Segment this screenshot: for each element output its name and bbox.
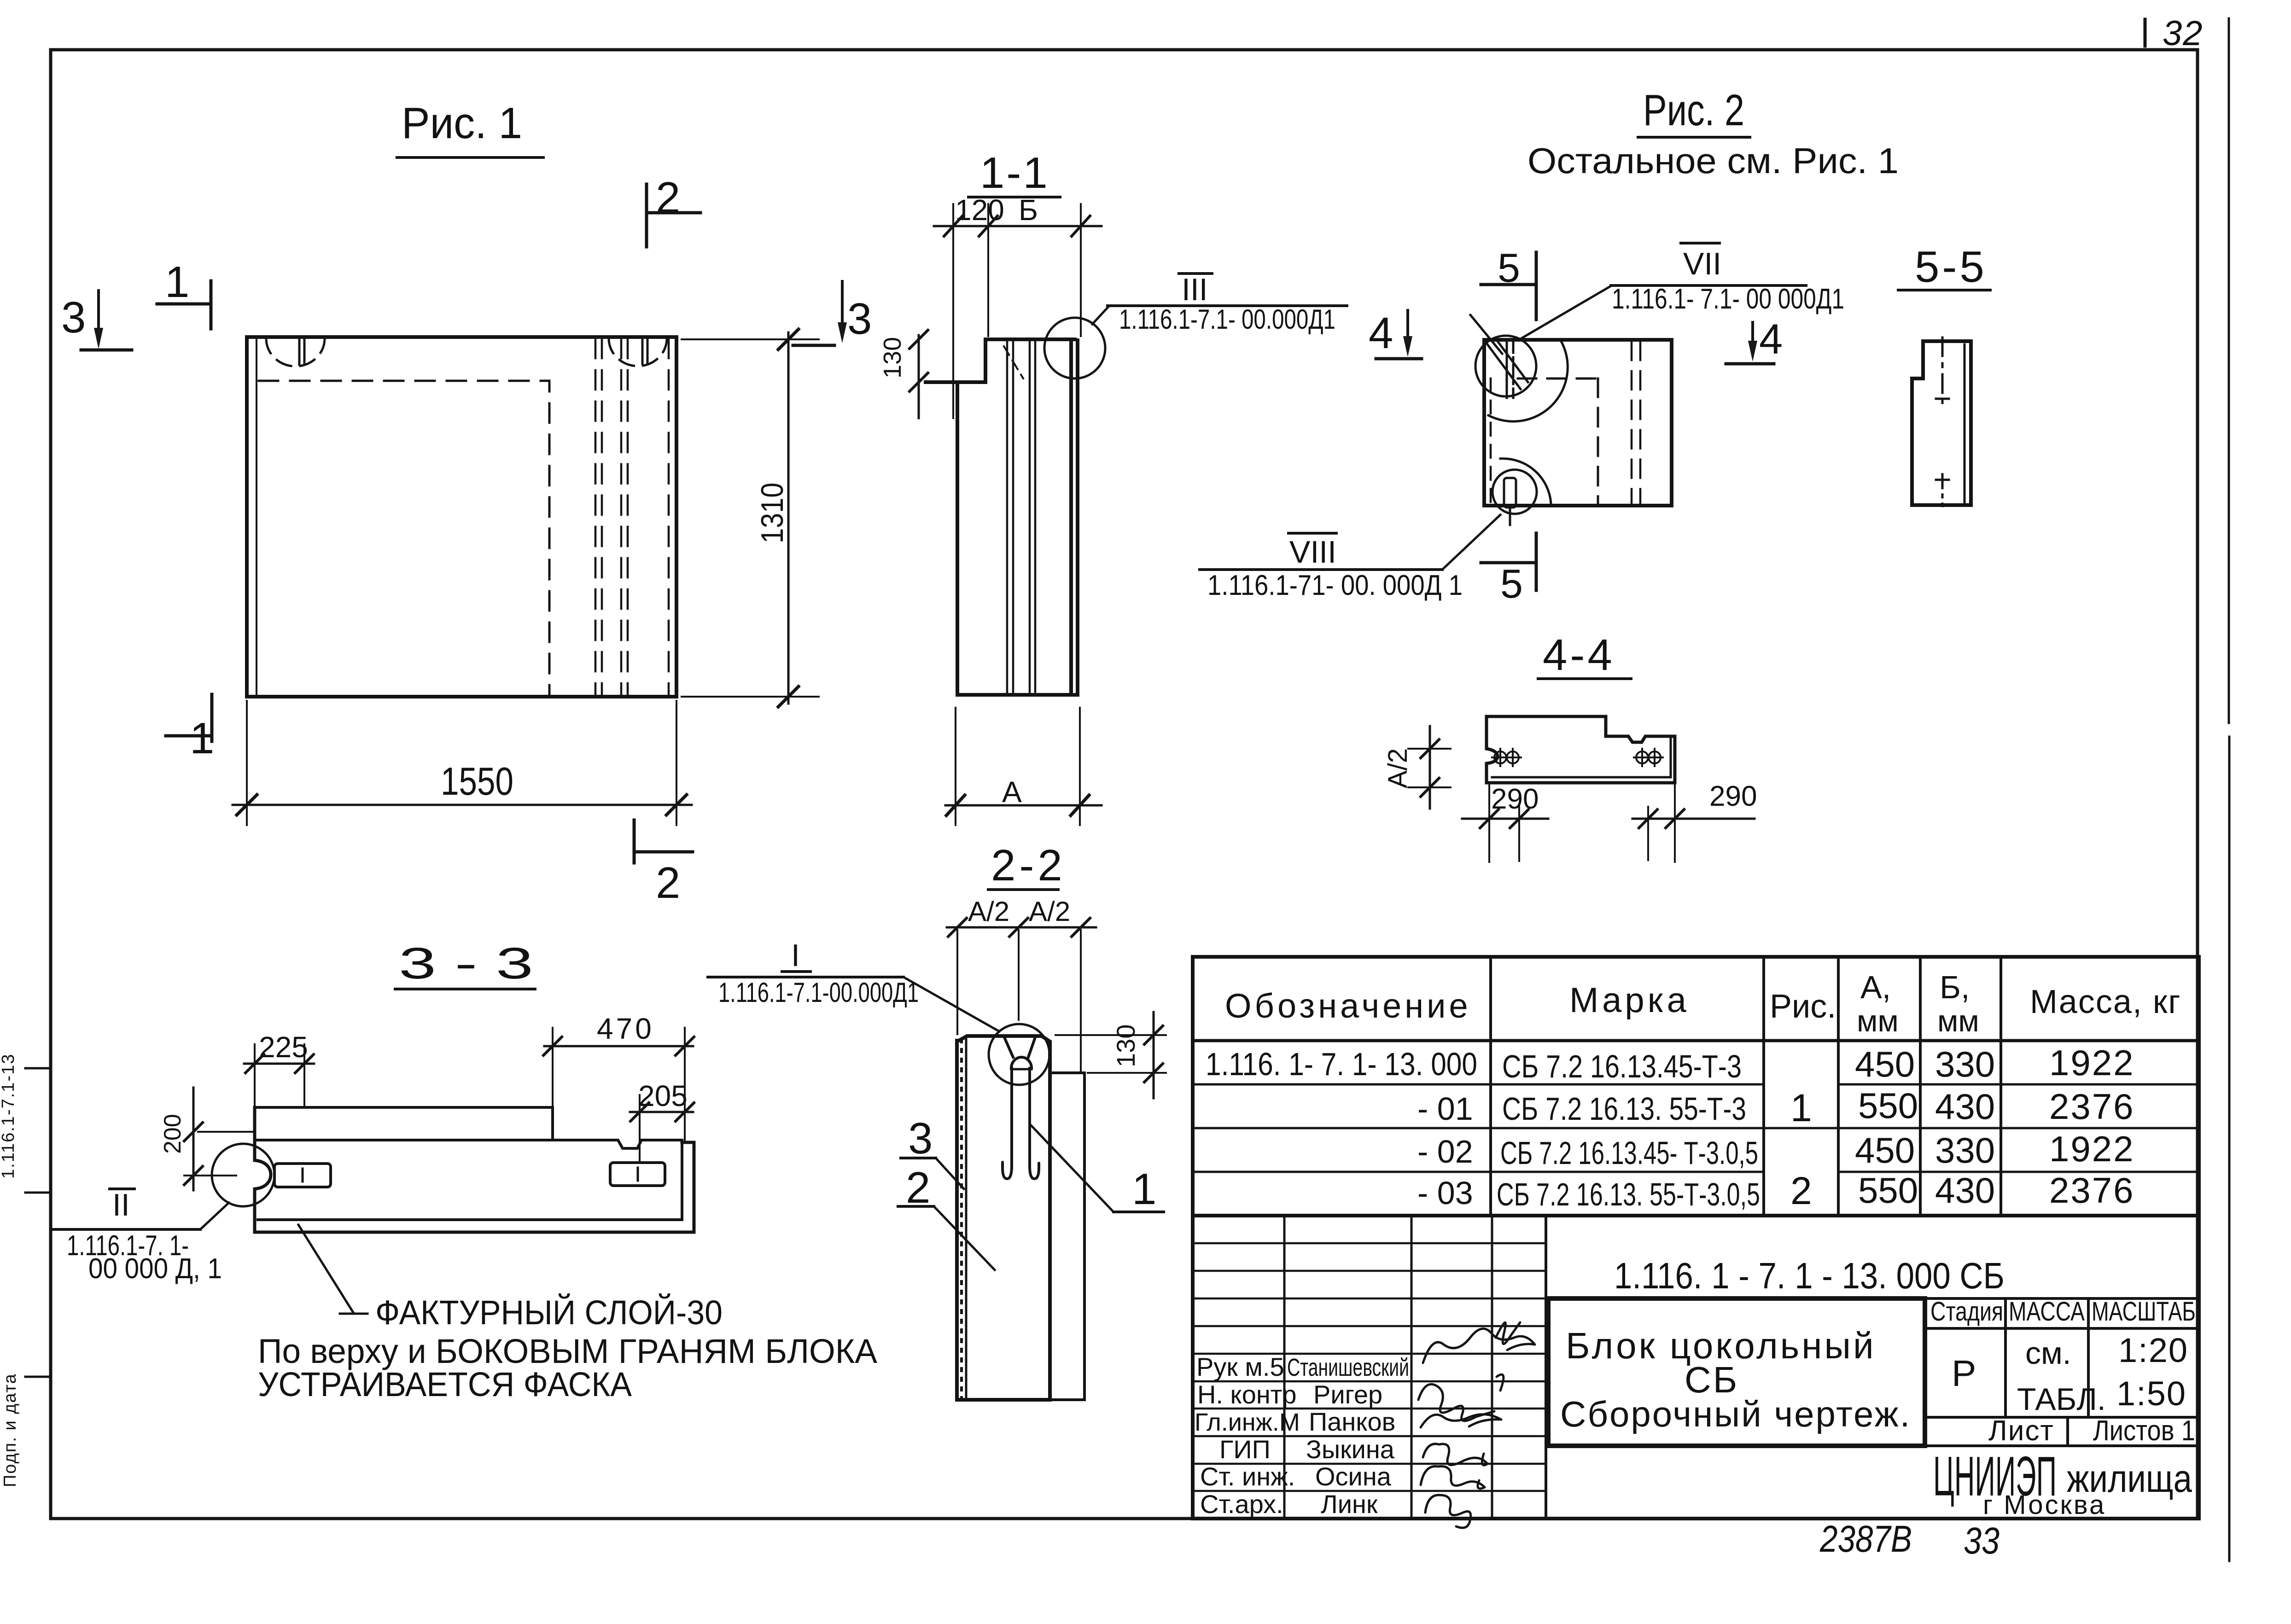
svg-text:4: 4 bbox=[1759, 316, 1783, 363]
svg-text:- 02: - 02 bbox=[1417, 1134, 1473, 1170]
svg-text:1:50: 1:50 bbox=[2116, 1374, 2186, 1413]
svg-text:Станишевский: Станишевский bbox=[1287, 1354, 1409, 1381]
svg-text:2387В: 2387В bbox=[1819, 1518, 1912, 1560]
svg-text:290: 290 bbox=[1709, 780, 1757, 812]
svg-text:УСТРАИВАЕТСЯ ФАСКА: УСТРАИВАЕТСЯ ФАСКА bbox=[258, 1365, 632, 1403]
svg-text:3: 3 bbox=[847, 294, 872, 343]
svg-text:1922: 1922 bbox=[2049, 1042, 2135, 1083]
svg-text:Листов 1: Листов 1 bbox=[2093, 1415, 2195, 1447]
svg-text:33: 33 bbox=[1964, 1520, 2000, 1562]
svg-text:130: 130 bbox=[879, 337, 906, 378]
svg-text:00 000 Д, 1: 00 000 Д, 1 bbox=[88, 1253, 222, 1285]
svg-text:г Москва: г Москва bbox=[1983, 1490, 2106, 1520]
svg-text:1.116.1- 7.1- 00 000Д1: 1.116.1- 7.1- 00 000Д1 bbox=[1612, 283, 1844, 315]
svg-text:Рис.: Рис. bbox=[1770, 988, 1836, 1025]
svg-text:Обозначение: Обозначение bbox=[1225, 987, 1471, 1025]
svg-text:Ст.арх.: Ст.арх. bbox=[1200, 1490, 1283, 1519]
svg-text:Зыкина: Зыкина bbox=[1306, 1435, 1395, 1464]
svg-text:2: 2 bbox=[656, 858, 680, 908]
svg-text:А,: А, bbox=[1860, 969, 1891, 1005]
svg-text:1.116.1-7.1-00.000Д1: 1.116.1-7.1-00.000Д1 bbox=[718, 977, 919, 1008]
svg-text:СБ 7.2 16.13. 55-Т-3: СБ 7.2 16.13. 55-Т-3 bbox=[1502, 1091, 1746, 1127]
svg-text:450: 450 bbox=[1855, 1130, 1915, 1170]
svg-text:32: 32 bbox=[2163, 14, 2204, 53]
svg-text:Ст. инж.: Ст. инж. bbox=[1200, 1462, 1295, 1491]
svg-text:120: 120 bbox=[955, 193, 1004, 227]
svg-text:1.116. 1- 7. 1- 13. 000: 1.116. 1- 7. 1- 13. 000 bbox=[1206, 1046, 1477, 1082]
svg-text:Масса, кг: Масса, кг bbox=[2030, 984, 2181, 1020]
svg-text:III: III bbox=[1182, 272, 1208, 307]
svg-text:130: 130 bbox=[1111, 1024, 1140, 1067]
svg-text:ФАКТУРНЫЙ СЛОЙ-30: ФАКТУРНЫЙ СЛОЙ-30 bbox=[375, 1293, 723, 1332]
svg-text:- 03: - 03 bbox=[1417, 1175, 1473, 1211]
svg-text:- 01: - 01 bbox=[1417, 1091, 1473, 1127]
svg-text:1550: 1550 bbox=[441, 760, 513, 803]
svg-text:2: 2 bbox=[906, 1163, 930, 1212]
svg-text:СБ 7.2 16.13. 55-Т-3.0,5: СБ 7.2 16.13. 55-Т-3.0,5 bbox=[1497, 1176, 1760, 1212]
svg-text:330: 330 bbox=[1935, 1044, 1995, 1084]
svg-text:1922: 1922 bbox=[2049, 1129, 2135, 1169]
svg-text:5-5: 5-5 bbox=[1915, 242, 1987, 291]
svg-text:2: 2 bbox=[656, 173, 680, 222]
svg-text:1: 1 bbox=[165, 257, 189, 307]
svg-text:4: 4 bbox=[1369, 309, 1393, 358]
svg-text:1:20: 1:20 bbox=[2118, 1331, 2188, 1369]
svg-text:Панков: Панков bbox=[1309, 1407, 1395, 1436]
svg-text:мм: мм bbox=[1937, 1004, 1979, 1038]
svg-text:1: 1 bbox=[1132, 1164, 1156, 1214]
svg-text:430: 430 bbox=[1935, 1086, 1995, 1127]
svg-text:Осина: Осина bbox=[1315, 1462, 1392, 1491]
svg-text:200: 200 bbox=[159, 1114, 186, 1154]
svg-text:Сборочный чертеж.: Сборочный чертеж. bbox=[1560, 1394, 1911, 1434]
svg-text:Р: Р bbox=[1952, 1353, 1976, 1394]
svg-text:225: 225 bbox=[259, 1030, 308, 1064]
svg-text:2-2: 2-2 bbox=[991, 841, 1066, 890]
svg-text:Ригер: Ригер bbox=[1313, 1380, 1382, 1409]
svg-text:I: I bbox=[791, 938, 800, 973]
svg-text:Б: Б bbox=[1019, 193, 1038, 227]
svg-text:ТАБЛ.: ТАБЛ. bbox=[2017, 1382, 2106, 1417]
svg-text:А: А bbox=[1002, 775, 1022, 809]
svg-text:Подп. и дата: Подп. и дата bbox=[0, 1373, 20, 1487]
svg-text:А/2: А/2 bbox=[1029, 896, 1070, 927]
svg-text:5: 5 bbox=[1500, 561, 1523, 606]
svg-text:1.116.1-7.1- 00.000Д1: 1.116.1-7.1- 00.000Д1 bbox=[1119, 304, 1335, 335]
svg-text:Гл.инж.М: Гл.инж.М bbox=[1195, 1409, 1300, 1436]
svg-text:Остальное см. Рис. 1: Остальное см. Рис. 1 bbox=[1527, 140, 1899, 181]
svg-text:мм: мм bbox=[1857, 1004, 1899, 1038]
svg-text:2376: 2376 bbox=[2049, 1170, 2135, 1211]
svg-text:1-1: 1-1 bbox=[980, 148, 1049, 198]
svg-text:ГИП: ГИП bbox=[1219, 1435, 1271, 1464]
svg-text:1.116. 1 - 7. 1 - 13. 000 СБ: 1.116. 1 - 7. 1 - 13. 000 СБ bbox=[1614, 1255, 2005, 1296]
svg-text:3 - 3: 3 - 3 bbox=[399, 939, 533, 988]
svg-text:Рис. 1: Рис. 1 bbox=[402, 99, 522, 148]
svg-text:Рис. 2: Рис. 2 bbox=[1643, 86, 1744, 135]
svg-text:550: 550 bbox=[1858, 1170, 1918, 1211]
svg-text:3: 3 bbox=[61, 293, 86, 342]
svg-text:430: 430 bbox=[1935, 1170, 1995, 1211]
svg-text:470: 470 bbox=[597, 1012, 654, 1045]
svg-text:Н. контр: Н. контр bbox=[1197, 1380, 1297, 1409]
svg-text:4-4: 4-4 bbox=[1543, 630, 1615, 680]
svg-text:СБ 7.2 16.13.45-Т-3: СБ 7.2 16.13.45-Т-3 bbox=[1502, 1048, 1742, 1084]
svg-text:Стадия: Стадия bbox=[1930, 1297, 2003, 1327]
svg-text:II: II bbox=[112, 1187, 130, 1222]
svg-text:А/2: А/2 bbox=[1383, 748, 1413, 788]
svg-text:550: 550 bbox=[1858, 1085, 1918, 1126]
svg-text:450: 450 bbox=[1855, 1044, 1915, 1084]
svg-text:1.116.1-71- 00. 000Д 1: 1.116.1-71- 00. 000Д 1 bbox=[1207, 570, 1463, 601]
svg-text:330: 330 bbox=[1935, 1130, 1995, 1170]
svg-text:МАССА: МАССА bbox=[2009, 1297, 2085, 1327]
svg-text:VII: VII bbox=[1683, 246, 1721, 281]
svg-text:Линк: Линк bbox=[1321, 1490, 1378, 1519]
svg-text:1310: 1310 bbox=[755, 483, 790, 543]
svg-text:МАСШТАБ: МАСШТАБ bbox=[2092, 1297, 2196, 1327]
svg-text:Рук м.5: Рук м.5 bbox=[1196, 1352, 1284, 1381]
svg-text:Марка: Марка bbox=[1569, 981, 1690, 1020]
svg-text:3: 3 bbox=[908, 1114, 933, 1163]
svg-text:1: 1 bbox=[1790, 1086, 1812, 1129]
svg-text:2: 2 bbox=[1790, 1169, 1812, 1212]
svg-text:По верху и БОКОВЫМ ГРАНЯМ БЛ: По верху и БОКОВЫМ ГРАНЯМ БЛОКА bbox=[258, 1332, 878, 1370]
svg-text:Лист: Лист bbox=[1988, 1415, 2054, 1447]
svg-text:Б,: Б, bbox=[1940, 969, 1970, 1005]
svg-text:2376: 2376 bbox=[2049, 1086, 2135, 1127]
svg-text:А/2: А/2 bbox=[968, 896, 1009, 927]
svg-text:1.116.1-7.1-13: 1.116.1-7.1-13 bbox=[0, 1054, 18, 1179]
svg-text:СБ 7.2 16.13.45- Т-3.0,5: СБ 7.2 16.13.45- Т-3.0,5 bbox=[1500, 1135, 1758, 1171]
svg-text:VIII: VIII bbox=[1289, 535, 1336, 570]
svg-text:см.: см. bbox=[2025, 1336, 2071, 1371]
